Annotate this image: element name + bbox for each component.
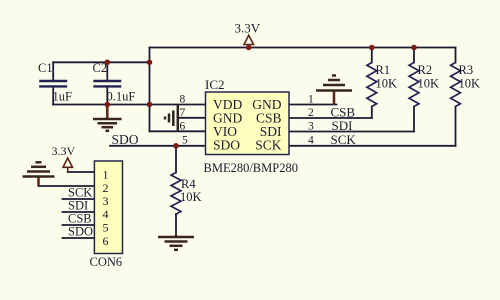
wire: C1/C2 bottoms to IC pin8 VDD	[53, 104, 205, 106]
svg-text:1: 1	[103, 168, 109, 182]
wire: R4 bottom lead	[175, 214, 177, 235]
wire: R4 top lead	[175, 146, 177, 173]
wire: R2 top lead	[413, 48, 415, 63]
wire: CON6 pin1 to 3.3V	[68, 171, 95, 173]
power symbol 3.3V top	[244, 35, 254, 47]
junction dot C2 bottom	[105, 102, 111, 108]
svg-text:5: 5	[103, 221, 109, 235]
wire: C1/C2 tops to rail	[53, 61, 149, 63]
svg-text:8: 8	[180, 94, 186, 106]
wire: CON6 pin2 to ground	[39, 185, 95, 187]
wire: R2 bottom lead	[413, 107, 415, 132]
ground at CON6 pin2 (inverted)	[23, 162, 55, 186]
svg-text:CON6: CON6	[90, 255, 123, 269]
capacitor C1	[39, 81, 67, 86]
svg-text:R3: R3	[459, 63, 474, 77]
svg-text:C2: C2	[93, 61, 108, 75]
svg-text:IC2: IC2	[205, 77, 225, 92]
svg-text:1uF: 1uF	[53, 90, 73, 104]
wire: SDI net pin3 to R2	[289, 131, 414, 133]
wire: 3.3V top rail	[150, 47, 456, 49]
resistor R3	[451, 63, 461, 107]
svg-text:SDO: SDO	[112, 132, 139, 147]
wire: SCK net pin4 to R3	[289, 145, 456, 147]
wire: R3 bottom lead	[455, 107, 457, 146]
svg-text:10K: 10K	[418, 77, 440, 91]
svg-text:BME280/BMP280: BME280/BMP280	[204, 161, 298, 175]
junction dot R2 top	[411, 45, 417, 51]
ground at IC pin1 (inverted)	[316, 76, 352, 105]
wire: R3 top lead	[455, 48, 457, 63]
wire: left vertical 3.3V rail	[149, 48, 151, 132]
ground below R4	[158, 235, 194, 250]
junction dot rail / pin8	[147, 102, 153, 108]
svg-text:10K: 10K	[180, 190, 202, 204]
junction dot SDO / R4	[173, 143, 179, 149]
ground at IC pin7 (rotated)	[165, 105, 178, 131]
svg-text:R4: R4	[181, 177, 196, 191]
wire: IC pin7 GND stub	[178, 117, 206, 119]
power symbol 3.3V at CON6	[63, 158, 73, 172]
wire: C2 bottom stem	[106, 87, 108, 104]
svg-text:SCK: SCK	[255, 138, 282, 153]
resistor R1	[367, 63, 377, 107]
svg-text:CSB: CSB	[68, 212, 92, 226]
junction dot at 3.3V rail	[246, 45, 252, 51]
wire: C1 top stem	[52, 62, 54, 80]
wire: IC pin1 GND stub	[289, 104, 337, 106]
svg-text:7: 7	[180, 107, 186, 119]
IC IC2 body (BME280/BMP280)	[206, 92, 290, 155]
junction dot R1 top	[369, 45, 375, 51]
wire: CON6 pin4 SDI stub	[63, 211, 95, 213]
svg-text:R1: R1	[376, 63, 391, 77]
resistor R2	[409, 63, 419, 107]
svg-text:R2: R2	[418, 63, 433, 77]
wire: CON6 pin6 SDO stub	[63, 237, 95, 239]
wire: R1 bottom lead	[371, 107, 373, 119]
svg-text:C1: C1	[38, 61, 53, 75]
svg-text:SDI: SDI	[332, 118, 353, 133]
svg-text:SCK: SCK	[331, 132, 357, 147]
svg-text:4: 4	[103, 207, 109, 221]
svg-text:3.3V: 3.3V	[235, 21, 261, 36]
svg-text:2: 2	[103, 181, 109, 195]
resistor R4	[171, 173, 181, 215]
svg-text:3.3V: 3.3V	[52, 144, 76, 158]
wire: C1 bottom stem	[52, 87, 54, 104]
svg-text:10K: 10K	[376, 77, 398, 91]
wire: IC pin6 VIO to rail	[150, 130, 206, 132]
svg-text:6: 6	[180, 121, 186, 133]
svg-text:3: 3	[103, 194, 109, 208]
wire: CON6 pin3 SCK stub	[63, 198, 95, 200]
svg-text:6: 6	[103, 234, 109, 248]
svg-text:1: 1	[308, 94, 314, 106]
junction dot C2 top	[105, 60, 111, 66]
svg-text:SDO: SDO	[68, 225, 93, 239]
wire: CON6 pin5 CSB stub	[63, 224, 95, 226]
wire: C2 top stem	[106, 62, 108, 79]
svg-text:4: 4	[308, 135, 314, 147]
svg-text:SCK: SCK	[68, 186, 92, 200]
wire: R1 top lead	[371, 48, 373, 63]
svg-text:10K: 10K	[459, 77, 481, 91]
svg-text:SDI: SDI	[68, 199, 88, 213]
ground below C2	[93, 105, 122, 131]
svg-text:SDO: SDO	[213, 138, 240, 153]
svg-text:0.1uF: 0.1uF	[107, 90, 136, 104]
wire: SDO net to IC pin5	[110, 145, 206, 147]
wire: CSB net pin2 to R1	[289, 117, 372, 119]
svg-text:5: 5	[182, 135, 188, 147]
junction dot rail / caps top	[147, 60, 153, 66]
svg-text:2: 2	[308, 107, 314, 119]
svg-text:3: 3	[308, 121, 314, 133]
capacitor C2	[93, 81, 121, 86]
connector CON6 body	[94, 161, 122, 254]
